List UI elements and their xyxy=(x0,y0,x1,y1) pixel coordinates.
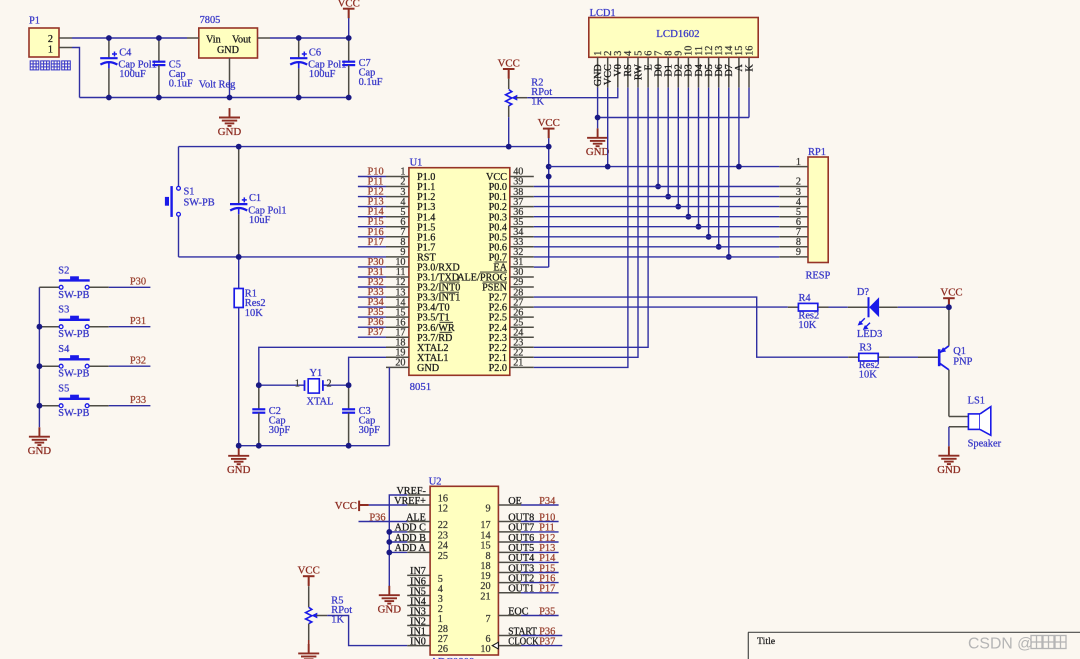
wire LCD pin15 A column xyxy=(738,88,740,167)
wire button ground bus xyxy=(38,287,40,427)
svg-text:26: 26 xyxy=(438,644,448,655)
speaker LS1 xyxy=(949,396,1002,450)
svg-text:20: 20 xyxy=(395,358,405,369)
svg-text:10K: 10K xyxy=(245,308,263,319)
svg-text:GND: GND xyxy=(586,146,610,158)
switch S1 SW-PB (reset button) xyxy=(165,147,215,257)
svg-text:9: 9 xyxy=(796,247,801,258)
svg-text:S4: S4 xyxy=(58,344,70,355)
svg-text:XTAL: XTAL xyxy=(307,396,334,407)
svg-text:OE: OE xyxy=(508,496,522,507)
wire VIN top rail P1 to 7805 xyxy=(72,37,187,39)
svg-text:VCC: VCC xyxy=(335,500,357,512)
svg-text:P37: P37 xyxy=(539,636,555,647)
junction dots button bus xyxy=(37,324,43,409)
svg-text:GND: GND xyxy=(417,363,439,374)
svg-text:RP1: RP1 xyxy=(808,147,826,158)
svg-text:100uF: 100uF xyxy=(309,69,336,80)
svg-text:16: 16 xyxy=(744,46,755,56)
wire LCD pin2 VCC column xyxy=(607,88,609,167)
svg-text:12: 12 xyxy=(438,504,448,515)
ground symbol GND (button bus) xyxy=(28,427,52,457)
capacitor C6 (Cap Pol1 100uF) xyxy=(290,38,347,98)
svg-text:P32: P32 xyxy=(130,356,146,367)
svg-text:P2.0: P2.0 xyxy=(489,363,507,374)
svg-text:30pF: 30pF xyxy=(269,425,291,436)
svg-text:VCC: VCC xyxy=(940,287,962,299)
wire U1 GND pin down xyxy=(388,367,390,445)
net label wires P10-P17 (U1 pins 1-8) xyxy=(358,167,386,248)
svg-text:S5: S5 xyxy=(58,384,69,395)
wire P2.6 row to R4 xyxy=(534,306,788,308)
svg-text:10uF: 10uF xyxy=(249,215,271,226)
wire R5 wiper to IN0 xyxy=(327,616,407,646)
svg-text:21: 21 xyxy=(480,591,490,602)
power port VCC (U1 supply) xyxy=(538,117,560,147)
wire LED to VCC node xyxy=(898,306,949,308)
svg-text:17: 17 xyxy=(480,520,490,531)
svg-text:7805: 7805 xyxy=(200,15,221,26)
wire VREF- and ADD bus to ground xyxy=(389,495,407,586)
wire XTAL2 to crystal left node xyxy=(259,347,386,385)
switch S5 SW-PB xyxy=(39,384,108,420)
svg-text:U2: U2 xyxy=(429,476,442,487)
wire R4 to LED xyxy=(829,306,848,308)
svg-text:R4: R4 xyxy=(799,293,812,304)
svg-text:P10: P10 xyxy=(539,512,555,523)
svg-text:GND: GND xyxy=(217,45,239,56)
svg-text:GND: GND xyxy=(218,126,242,138)
microcontroller U1 8051 xyxy=(386,157,534,393)
wire LCD E to P2.2 xyxy=(534,88,648,348)
svg-text:P37: P37 xyxy=(368,327,384,338)
wire P0.0-P0.7 rows U1 to RP1 xyxy=(534,187,780,257)
svg-text:21: 21 xyxy=(513,358,523,369)
ground symbol GND (LCD) xyxy=(586,118,610,159)
svg-text:P17: P17 xyxy=(368,237,384,248)
capacitor C2 Cap 30pF xyxy=(252,385,290,446)
svg-text:10: 10 xyxy=(480,644,490,655)
ground symbol GND (ADC) xyxy=(378,586,402,616)
svg-text:RESP: RESP xyxy=(806,271,831,282)
svg-text:IN0: IN0 xyxy=(410,636,426,647)
potentiometer R5 RPot 1K xyxy=(298,565,353,654)
transistor Q1 PNP xyxy=(918,307,973,416)
wire crystal ground rail xyxy=(239,445,390,447)
wire LCD RW to P2.1 xyxy=(534,88,638,358)
capacitor C1 (Cap Pol1 10uF) xyxy=(230,147,287,257)
svg-text:1: 1 xyxy=(48,45,53,56)
resistor R1 Res2 10K xyxy=(234,257,265,446)
ground symbol GND (R5, clipped at bottom) xyxy=(298,644,319,659)
net label wire P31 xyxy=(109,316,151,327)
switch S4 SW-PB xyxy=(39,344,108,380)
svg-text:P30: P30 xyxy=(130,277,146,288)
LED D? LED3 xyxy=(848,287,898,340)
crystal Y1 XTAL xyxy=(259,368,349,407)
svg-text:P35: P35 xyxy=(539,606,555,617)
svg-text:S2: S2 xyxy=(58,265,69,276)
svg-text:C6: C6 xyxy=(309,47,321,58)
ADC U2 ADC0809 xyxy=(394,476,539,659)
svg-text:P17: P17 xyxy=(539,584,555,595)
svg-text:VCC: VCC xyxy=(298,565,320,577)
svg-text:P31: P31 xyxy=(130,316,146,327)
svg-text:Vout: Vout xyxy=(232,35,251,46)
wire R3 to Q1 base xyxy=(889,356,918,358)
svg-text:SW-PB: SW-PB xyxy=(184,198,215,209)
switch S2 SW-PB xyxy=(39,265,108,301)
resistor R3 Res2 10K xyxy=(848,343,889,381)
svg-text:P36: P36 xyxy=(369,512,385,523)
svg-text:S3: S3 xyxy=(58,305,69,316)
svg-text:LS1: LS1 xyxy=(968,396,985,407)
wire LCD GND net (pins 1,16) xyxy=(598,88,749,118)
svg-text:P12: P12 xyxy=(539,533,555,544)
svg-text:2: 2 xyxy=(48,34,53,45)
wire R2 wiper to LCD V0 xyxy=(527,88,618,98)
svg-text:C1: C1 xyxy=(249,193,261,204)
svg-text:P34: P34 xyxy=(539,496,556,507)
svg-text:SW-PB: SW-PB xyxy=(58,290,89,301)
wire EA stub connect xyxy=(534,266,549,268)
svg-text:U1: U1 xyxy=(410,157,423,168)
svg-text:Speaker: Speaker xyxy=(968,439,1002,450)
wires ADD C ADD B ADD A to bus xyxy=(386,529,407,555)
svg-text:7: 7 xyxy=(486,614,491,625)
resistor pack RP1 RESP xyxy=(779,147,830,282)
svg-text:LCD1: LCD1 xyxy=(590,8,616,19)
svg-text:P33: P33 xyxy=(130,395,146,406)
title block border xyxy=(748,632,1080,659)
svg-text:Title: Title xyxy=(757,636,776,647)
svg-text:S1: S1 xyxy=(184,187,195,198)
svg-text:GND: GND xyxy=(227,464,251,476)
net label wires P30-P37 (U1 pins 10-17) xyxy=(358,257,386,338)
svg-text:30pF: 30pF xyxy=(359,425,381,436)
svg-text:1: 1 xyxy=(295,379,300,390)
junction dot VCC alarm xyxy=(946,304,952,310)
power port VCC (VREF+) xyxy=(335,500,407,512)
svg-text:SW-PB: SW-PB xyxy=(58,408,89,419)
label 电源接口 (power port) xyxy=(30,61,70,70)
svg-text:10K: 10K xyxy=(798,320,816,331)
power port VCC (alarm) xyxy=(940,287,962,308)
svg-text:100uF: 100uF xyxy=(119,69,146,80)
connector P1 (power input) xyxy=(29,16,72,58)
svg-text:2: 2 xyxy=(327,379,332,390)
svg-text:LED3: LED3 xyxy=(857,329,882,340)
svg-text:GND: GND xyxy=(378,604,402,616)
svg-text:ALE: ALE xyxy=(406,512,426,523)
svg-text:GND: GND xyxy=(28,445,52,457)
net label wires U2 right side xyxy=(521,496,562,648)
potentiometer R2 RPot 1K xyxy=(498,57,553,146)
wire LCD RS to P2.0 xyxy=(534,88,628,368)
net label wire P33 xyxy=(109,395,151,406)
wire VCC column to pin40 and EA xyxy=(548,147,550,268)
wire 7805 Vout to VCC node xyxy=(270,37,349,39)
capacitor C5 (Cap 0.1uF) xyxy=(152,38,193,98)
display LCD1 LCD1602 xyxy=(589,8,758,88)
junction dots crystal xyxy=(236,382,352,448)
wire ground rail bottom xyxy=(80,97,349,99)
svg-text:VCC: VCC xyxy=(498,57,520,69)
svg-text:25: 25 xyxy=(438,551,448,562)
svg-text:0.1uF: 0.1uF xyxy=(169,79,193,90)
svg-text:GND: GND xyxy=(937,464,961,476)
svg-text:24: 24 xyxy=(438,541,448,552)
svg-text:15: 15 xyxy=(480,541,490,552)
ground symbol GND (speaker) xyxy=(937,446,961,476)
svg-text:CSDN @: CSDN @ xyxy=(968,636,1033,653)
svg-text:Y1: Y1 xyxy=(310,368,323,379)
resistor R4 Res2 10K xyxy=(788,293,829,331)
svg-text:22: 22 xyxy=(438,520,448,531)
watermark CSDN @baichaya xyxy=(968,636,1066,653)
junction dots reset rail xyxy=(236,144,552,260)
wire VCC reset rail xyxy=(179,146,549,148)
svg-text:VCC: VCC xyxy=(338,0,360,9)
wire RST row xyxy=(179,256,387,258)
regulator U 7805 xyxy=(187,15,270,80)
capacitor C4 (Cap Pol1 100uF) xyxy=(100,38,157,98)
wire P1 pin1 to ground rail xyxy=(72,48,80,98)
wire XTAL1 to crystal right node xyxy=(349,357,386,385)
svg-text:SW-PB: SW-PB xyxy=(58,369,89,380)
capacitor C3 Cap 30pF xyxy=(342,385,380,446)
net label wire P36 (ALE) xyxy=(359,512,408,523)
svg-text:LCD1602: LCD1602 xyxy=(656,28,699,40)
ground symbol GND (crystal) xyxy=(227,446,251,476)
svg-text:PNP: PNP xyxy=(953,356,972,367)
wire LCD data D0-D7 columns to P0 bus xyxy=(655,88,732,260)
svg-text:Vin: Vin xyxy=(206,35,221,46)
ground symbol GND (7805) xyxy=(218,108,242,138)
svg-text:R3: R3 xyxy=(859,343,871,354)
wire 7805 GND down to ground rail xyxy=(229,80,231,98)
svg-text:1: 1 xyxy=(796,157,801,168)
svg-text:0.1uF: 0.1uF xyxy=(359,77,383,88)
svg-text:C4: C4 xyxy=(119,47,132,58)
switch S3 SW-PB xyxy=(39,305,108,341)
junction dots power rails xyxy=(106,35,352,100)
svg-text:Q1: Q1 xyxy=(953,346,966,357)
net label wire P30 xyxy=(109,277,151,288)
wire P2.7 to R3 xyxy=(534,297,848,357)
svg-text:SW-PB: SW-PB xyxy=(58,329,89,340)
svg-text:10K: 10K xyxy=(859,370,877,381)
net label wire P32 xyxy=(109,356,151,367)
junction dots LCD power xyxy=(595,115,742,170)
capacitor C7 (Cap 0.1uF) xyxy=(342,38,383,98)
svg-text:9: 9 xyxy=(486,504,491,515)
svg-text:8051: 8051 xyxy=(410,381,432,393)
wire LCD VCC net row (to RP1 pin1) xyxy=(549,166,780,168)
power port VCC (top, above C7) xyxy=(338,0,360,38)
svg-text:K: K xyxy=(744,64,755,72)
svg-text:VCC: VCC xyxy=(538,117,560,129)
svg-text:D?: D? xyxy=(857,287,870,298)
svg-text:P1: P1 xyxy=(29,16,40,27)
